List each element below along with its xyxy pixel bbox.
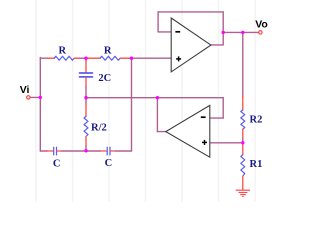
resistor R (right) zigzag: [100, 56, 120, 60]
resistor R1 top lead: [242, 143, 244, 155]
svg-text:R/2: R/2: [91, 123, 107, 134]
capacitor 2C bottom lead: [85, 78, 87, 88]
svg-text:R1: R1: [250, 159, 263, 170]
capacitor 2C top lead: [85, 61, 87, 73]
wire 2C to bootstrap node: [85, 87, 87, 98]
wire U2 output vertical: [156, 98, 158, 132]
wire stub below bootstrap node: [85, 98, 87, 105]
op-amp U1 minus symbol: [175, 31, 180, 33]
svg-text:2C: 2C: [98, 73, 111, 84]
op-amp U1 plus symbol: [176, 58, 181, 60]
svg-text:Vo: Vo: [255, 19, 268, 31]
resistor R/2 zigzag: [84, 116, 88, 136]
op-amp U2 (buffer, pointing left): [166, 105, 210, 157]
svg-text:C: C: [105, 158, 113, 169]
resistor R1 right lead: [74, 57, 79, 59]
capacitor C2 right lead: [111, 150, 116, 152]
wire stub at node B: [80, 57, 89, 59]
wire left vertical Vi column: [39, 58, 41, 152]
node twin-T output top: [130, 57, 133, 60]
wire right column Vo to R2: [242, 32, 244, 97]
resistor R2 zigzag: [241, 110, 245, 129]
wire mid vertical (twin-T output column): [131, 58, 133, 151]
wire top rail left segment: [40, 57, 48, 59]
wire U1 feedback right leg: [222, 12, 224, 45]
resistor R1 left lead: [48, 57, 55, 59]
resistor R/2 bottom lead: [85, 137, 87, 147]
wire to Vo terminal: [223, 31, 258, 33]
op-amp U1: [171, 18, 211, 72]
svg-text:R: R: [59, 45, 67, 56]
wire U2 + input to divider: [211, 142, 243, 144]
terminal Vi: [27, 96, 30, 99]
resistor R2 left lead: [88, 57, 100, 59]
capacitor C2 plates: [106, 147, 108, 155]
node bootstrap left (2C / R-2 / rail): [84, 96, 87, 99]
wire U1 feedback top: [158, 11, 223, 13]
resistor R2 right lead: [120, 57, 129, 59]
svg-text:R: R: [104, 45, 112, 56]
faint background scan bands: [36, 0, 255, 202]
node U1 output tee: [222, 31, 225, 34]
wire stub above C-C node: [85, 146, 87, 151]
resistor R2 top lead: [242, 97, 244, 110]
resistor R2 bottom lead: [242, 129, 244, 138]
ground: [236, 190, 250, 196]
op-amp U2 minus symbol: [201, 116, 206, 118]
wire bottom rail middle: [62, 150, 101, 152]
capacitor 2C plates: [80, 72, 93, 74]
resistor R (left) zigzag: [54, 56, 74, 60]
wire bottom rail right: [115, 150, 131, 152]
svg-text:Vi: Vi: [20, 84, 30, 96]
node Vi junction: [39, 96, 42, 99]
svg-text:C: C: [53, 159, 61, 170]
op-amp U2 plus symbol: [202, 141, 207, 143]
wire stub above divider node: [242, 138, 244, 143]
node R1-R2 divider junction: [241, 141, 244, 144]
wire stub below node B: [85, 58, 87, 61]
wire top rail to op-amp U1 + input: [129, 57, 171, 59]
capacitor C1 plates: [53, 147, 55, 155]
svg-text:R2: R2: [250, 114, 263, 125]
wire bottom rail left: [40, 150, 47, 152]
capacitor C2 left lead: [100, 150, 106, 152]
capacitor C1 left lead: [47, 150, 53, 152]
resistor R/2 top lead: [85, 104, 87, 116]
resistor R1 zigzag: [241, 155, 245, 177]
wire U1 feedback left leg: [157, 12, 159, 32]
junction node dots: [39, 31, 245, 153]
wire U2 output horizontal: [157, 131, 166, 133]
wire U2 inverting loop right leg: [222, 98, 224, 118]
wire U1 - input stub: [158, 31, 171, 33]
wire U2 - input stub: [211, 117, 224, 119]
wire Vi stub: [30, 96, 40, 98]
wire bootstrap rail: [86, 97, 223, 99]
node B (R-R-2C junction): [84, 57, 87, 60]
node buffer output junction: [156, 96, 159, 99]
wire U1 output stub: [211, 44, 223, 46]
capacitor C1 right lead: [57, 150, 61, 152]
resistor R1 bottom lead: [242, 176, 244, 190]
terminal Vo: [259, 31, 262, 34]
node Vo column tee: [241, 31, 244, 34]
node C-C midpoint: [84, 149, 87, 152]
